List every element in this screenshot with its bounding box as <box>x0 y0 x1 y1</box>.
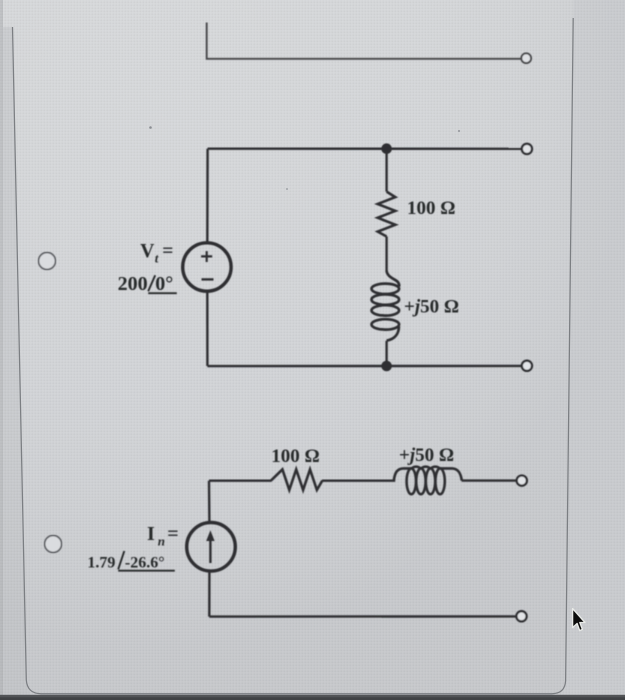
radio button 1 <box>39 253 56 270</box>
wire branch lower <box>385 341 387 366</box>
wire left lower <box>206 291 208 366</box>
terminal a <box>522 144 532 154</box>
svg-text:V: V <box>140 241 154 262</box>
wire left upper <box>208 481 211 523</box>
mouse cursor <box>573 609 585 631</box>
svg-text:200: 200 <box>118 273 148 295</box>
svg-text:-26.6°: -26.6° <box>125 554 165 571</box>
svg-text:0°: 0° <box>155 273 173 295</box>
wire branch middle <box>385 237 387 272</box>
voltage source Vt circle <box>183 243 231 291</box>
terminal c <box>517 476 527 486</box>
terminal b <box>522 361 532 371</box>
minus sign <box>202 278 214 280</box>
arrow shaft <box>209 540 211 563</box>
wire branch upper <box>385 149 387 192</box>
arrow head <box>206 530 214 541</box>
left outer band <box>0 27 31 700</box>
dust specks <box>149 126 152 129</box>
option A partial circuit wire <box>207 23 521 59</box>
bottom circuit: top wire segments <box>209 479 516 482</box>
svg-text:I: I <box>147 523 155 545</box>
bottom dark band <box>0 695 625 700</box>
svg-text:n: n <box>158 534 165 549</box>
top circuit: top wire <box>208 147 522 150</box>
svg-text:t: t <box>155 250 159 265</box>
angle slash for Vt <box>148 275 177 293</box>
svg-text:100 Ω: 100 Ω <box>271 446 319 467</box>
svg-text:=: = <box>167 523 178 545</box>
resistor 100 ohm vertical <box>378 192 396 237</box>
terminal d <box>516 611 526 621</box>
node junction dot top <box>381 143 392 154</box>
svg-text:+j50 Ω: +j50 Ω <box>399 445 454 466</box>
right outer band <box>558 0 625 700</box>
svg-text:=: = <box>162 241 173 262</box>
inductor +j50 ohm horizontal <box>394 468 412 480</box>
svg-text:100 Ω: 100 Ω <box>407 198 455 219</box>
current source In circle <box>187 523 236 572</box>
radio button 2 <box>45 536 62 553</box>
plus sign <box>201 251 212 262</box>
bottom circuit: bottom wire <box>209 615 516 618</box>
top circuit: bottom wire <box>207 365 521 368</box>
svg-text:1.79: 1.79 <box>87 554 115 571</box>
wire left lower <box>208 572 210 617</box>
wire left upper <box>206 149 209 244</box>
left edge strip <box>0 0 3 700</box>
inductor +j50 ohm vertical <box>387 271 400 287</box>
angle slash for In <box>118 551 175 571</box>
option A terminal <box>521 53 531 63</box>
resistor 100 ohm horizontal <box>271 469 322 490</box>
svg-text:+j50 Ω: +j50 Ω <box>404 297 459 318</box>
node junction dot bottom <box>381 361 392 372</box>
